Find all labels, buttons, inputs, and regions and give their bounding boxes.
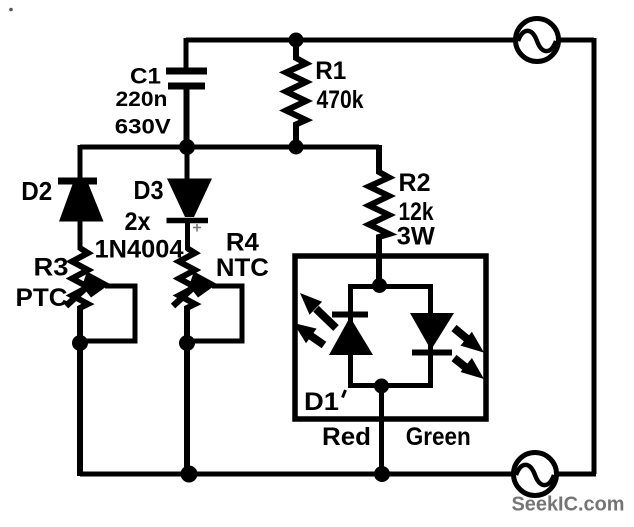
svg-text:D1: D1 <box>304 388 339 416</box>
svg-text:Green: Green <box>406 423 471 451</box>
svg-text:2x: 2x <box>125 208 151 236</box>
wire R3 loop <box>80 286 135 341</box>
node R4 loop junction <box>179 335 195 351</box>
svg-text:Red: Red <box>322 423 371 451</box>
svg-text:R4: R4 <box>226 229 259 257</box>
node R3 loop junction <box>72 335 88 351</box>
wire LED inner rectangle <box>351 287 431 386</box>
LED green (right, pointing down) <box>410 313 454 353</box>
label D1 prime mark <box>343 390 346 398</box>
node LED top junction <box>372 278 387 293</box>
diode D2 <box>58 145 104 250</box>
node bottom rail D3/R4 junction <box>181 466 198 483</box>
svg-text:1N4004: 1N4004 <box>95 236 184 264</box>
svg-text:PTC: PTC <box>16 284 68 312</box>
svg-text:470k: 470k <box>317 86 364 114</box>
wire top-right segment <box>558 38 594 43</box>
thermistor arrow R3 <box>66 272 110 307</box>
svg-text:R3: R3 <box>34 254 69 282</box>
resistor R1 <box>286 38 306 147</box>
wire R4 loop <box>187 286 242 341</box>
node bottom rail LED junction <box>374 466 390 482</box>
svg-text:630V: 630V <box>115 115 172 139</box>
ac source top <box>516 19 559 62</box>
diode D3 <box>167 145 213 250</box>
speck artifact top-left <box>9 8 13 12</box>
LED red light arrows <box>294 293 337 345</box>
svg-text:D3: D3 <box>134 175 164 205</box>
node mid R1 junction <box>289 140 304 155</box>
svg-text:SeekIC.com: SeekIC.com <box>512 494 625 516</box>
LED green light arrows <box>454 328 484 379</box>
wire bottom rail <box>80 472 513 477</box>
wire right rail <box>592 38 597 474</box>
wire bottom-right segment <box>557 472 596 477</box>
svg-text:R2: R2 <box>399 169 431 197</box>
resistor R4 (NTC) <box>179 248 195 476</box>
resistor R2 <box>369 145 389 288</box>
resistor R3 (PTC) <box>72 248 88 476</box>
node mid C1/D3 junction <box>179 139 195 155</box>
wire LED to bottom rail <box>379 386 384 474</box>
wire top rail <box>186 38 516 43</box>
svg-text:220n: 220n <box>116 87 168 111</box>
speck artifact near D3 <box>193 224 201 232</box>
svg-text:3W: 3W <box>397 223 435 251</box>
capacitor C1 <box>166 38 207 147</box>
thermistor arrow R4 <box>173 272 217 307</box>
LED red (left, pointing up) <box>329 315 373 356</box>
wire mid rail <box>80 145 379 150</box>
svg-text:R1: R1 <box>315 57 346 85</box>
svg-text:C1: C1 <box>130 64 161 89</box>
LED package box D1 <box>295 256 486 419</box>
node LED bottom junction <box>374 379 389 394</box>
svg-text:D2: D2 <box>21 176 52 206</box>
svg-text:NTC: NTC <box>216 254 269 282</box>
node top R1 junction <box>289 33 304 48</box>
ac source bottom <box>514 453 557 496</box>
